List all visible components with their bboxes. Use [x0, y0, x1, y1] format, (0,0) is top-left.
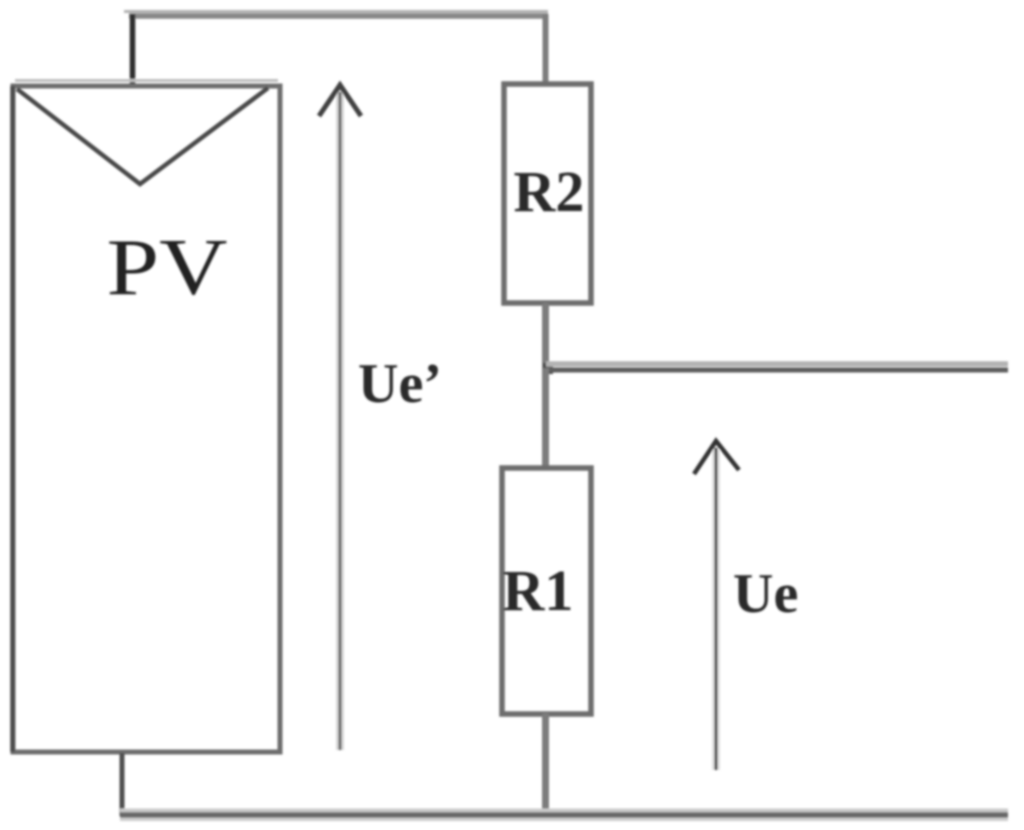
arrow Ue' shaft	[336, 92, 344, 750]
resistor R2 body	[504, 84, 591, 303]
svg-text:Ue: Ue	[733, 563, 798, 625]
wire from node down to R1 top	[542, 368, 549, 469]
label R1	[503, 558, 574, 623]
svg-text:PV: PV	[107, 224, 228, 312]
arrow Ue' head	[319, 85, 361, 116]
label PV	[107, 224, 228, 312]
node junction between R1 and R2	[543, 363, 553, 374]
svg-text:R2: R2	[514, 159, 585, 224]
label Ue	[733, 563, 798, 625]
arrow Ue shaft	[712, 448, 720, 770]
label R2	[514, 159, 585, 224]
label Ue'	[358, 353, 442, 415]
resistor R1 body	[502, 468, 591, 714]
svg-text:R1: R1	[503, 558, 574, 623]
wire stub from top wire down to PV top	[130, 14, 136, 86]
wire from node to right edge	[546, 364, 1008, 370]
solar panel chevron (V symbol)	[17, 88, 268, 184]
solar panel PV box	[13, 81, 281, 753]
wire stub from PV bottom down to bottom wire	[120, 753, 125, 816]
wire from top wire down to R2 top	[543, 14, 549, 82]
wire bottom horizontal	[120, 811, 1008, 820]
wire from R1 bottom to bottom wire	[542, 713, 549, 816]
wire from R2 bottom to node	[542, 303, 549, 368]
wire top horizontal from PV stub to R2 stub	[124, 12, 548, 17]
svg-text:Ue’: Ue’	[358, 353, 442, 415]
arrow Ue head	[694, 441, 739, 474]
